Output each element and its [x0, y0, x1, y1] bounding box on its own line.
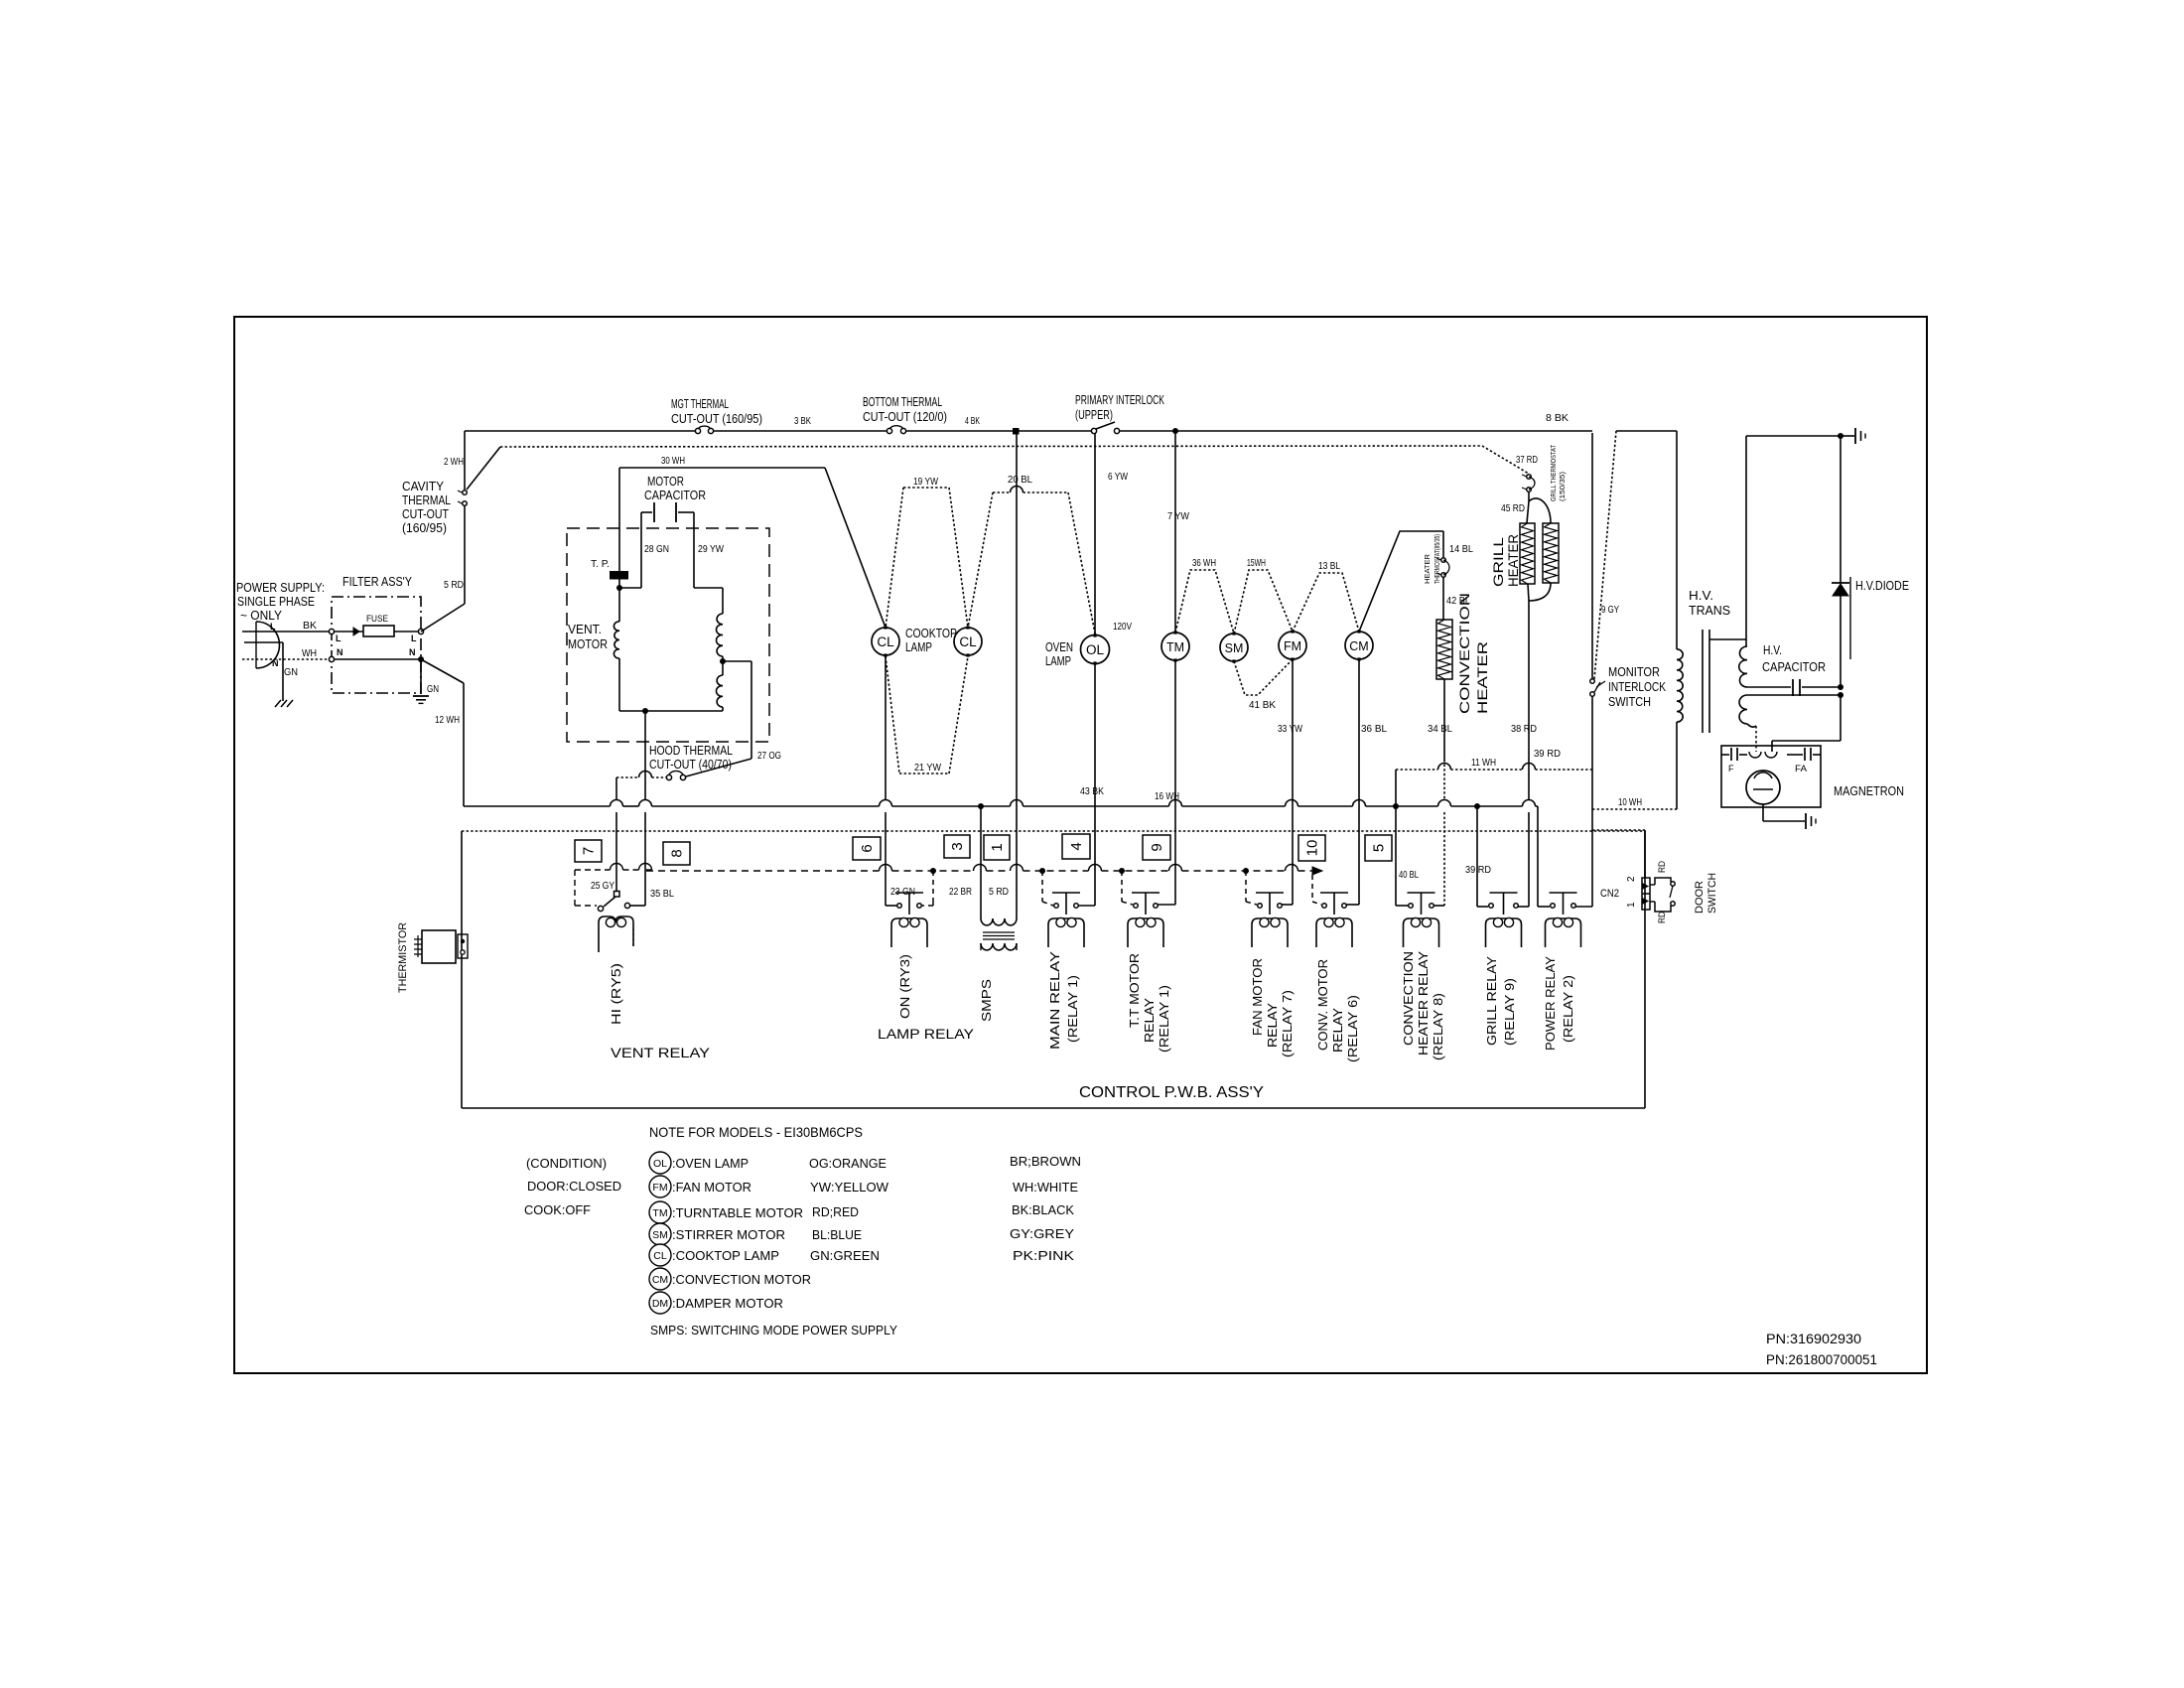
svg-text:39 RD: 39 RD [1534, 749, 1561, 760]
svg-text:4: 4 [1068, 842, 1085, 850]
stirrer motor SM [1220, 633, 1248, 661]
svg-text:POWER SUPPLY:: POWER SUPPLY: [236, 580, 325, 595]
junction dot bottom [642, 708, 648, 714]
svg-text:39 RD: 39 RD [1465, 865, 1491, 876]
wire 19 YW (lamp bridge top) [903, 487, 949, 489]
svg-text:(RELAY 1): (RELAY 1) [1065, 975, 1080, 1043]
filter assy box [332, 597, 421, 693]
cooktop lamp CL2 [954, 628, 982, 655]
svg-text:CONVECTION: CONVECTION [1401, 951, 1416, 1046]
legend DM [649, 1292, 671, 1314]
lamp relay ON(RY3) [897, 904, 902, 909]
svg-text:FM: FM [652, 1182, 667, 1194]
wire to convection heater [1442, 577, 1444, 620]
legend FM [649, 1176, 671, 1197]
junction dot dashed bus x1255 [1243, 868, 1249, 874]
svg-text:CUT-OUT (40/70): CUT-OUT (40/70) [649, 757, 732, 772]
junction dot 40BL-bus [1393, 803, 1399, 809]
vent motor main winding [614, 622, 619, 658]
svg-text:THERMISTOR: THERMISTOR [397, 922, 409, 993]
svg-text:29 YW: 29 YW [698, 544, 724, 555]
MGT thermal cut-out [695, 428, 700, 433]
svg-text:H.V.: H.V. [1689, 588, 1713, 603]
vent motor third winding [722, 661, 724, 675]
HV trans core [1702, 630, 1704, 733]
legend SM [649, 1223, 671, 1245]
svg-text::FAN MOTOR: :FAN MOTOR [672, 1180, 751, 1195]
pin box 6 [853, 837, 881, 860]
svg-text:3: 3 [949, 842, 966, 850]
wire filament to magnetron [1747, 724, 1756, 727]
wire 25 GY (hood to vent relay) [615, 777, 617, 800]
HV secondary lead [1745, 436, 1747, 646]
svg-text:5: 5 [1371, 844, 1388, 852]
svg-text:(150/35): (150/35) [1558, 471, 1567, 501]
svg-text:SM: SM [1225, 641, 1244, 655]
HV capacitor [1747, 686, 1791, 688]
svg-text:HEATER RELAY: HEATER RELAY [1416, 951, 1431, 1055]
svg-text:8 BK: 8 BK [1546, 413, 1569, 424]
svg-text:BK: BK [303, 621, 317, 632]
wire 2 WH (cutout to top bus) [464, 431, 466, 490]
wire grill relay feed [1476, 806, 1478, 907]
svg-text:30 WH: 30 WH [661, 456, 685, 467]
svg-text:CL: CL [959, 634, 977, 649]
svg-text:2: 2 [1626, 876, 1637, 882]
pin box 8 [663, 842, 690, 865]
svg-text:SINGLE PHASE: SINGLE PHASE [237, 594, 315, 609]
test point T.P. [610, 571, 628, 580]
magnetron ground [1762, 804, 1764, 821]
svg-text:CUT-OUT (160/95): CUT-OUT (160/95) [671, 411, 762, 426]
terminal L left [329, 629, 334, 633]
lamp/motor terminal nubs [884, 626, 887, 629]
svg-text:33 YW: 33 YW [1278, 724, 1302, 735]
svg-text:ON (RY3): ON (RY3) [897, 954, 912, 1019]
junction node (SMPS feed) [1013, 428, 1020, 435]
wire 20 BL (CL2-OL bridge) [993, 492, 1011, 493]
SMPS transformer [981, 918, 1017, 925]
svg-text:THERMOSTAT(85/35): THERMOSTAT(85/35) [1433, 534, 1441, 584]
wire L out of fuse [394, 631, 421, 633]
svg-text:H.V.: H.V. [1763, 642, 1782, 657]
wire 22 BR (SMPS right) [1016, 434, 1018, 918]
wire 37 RD (line2 to grill tstat) [1482, 446, 1529, 474]
magnetron filament pins [1749, 752, 1761, 758]
pin box 4 [1062, 834, 1090, 859]
svg-text:LAMP RELAY: LAMP RELAY [878, 1026, 975, 1042]
svg-text::STIRRER MOTOR: :STIRRER MOTOR [672, 1227, 785, 1242]
hood thermal wire [616, 776, 639, 778]
wire cathode to magnetron [1840, 695, 1842, 741]
svg-text:CM: CM [1349, 639, 1368, 653]
HV diode D1 [1840, 436, 1842, 583]
svg-text:(RELAY 7): (RELAY 7) [1280, 990, 1295, 1057]
wire 41 BK (SM-FM bottom) [1234, 659, 1293, 695]
junction dot capacitor [1838, 684, 1843, 690]
terminal N right [418, 656, 424, 662]
cooktop lamp CL1 [872, 628, 899, 655]
svg-text:5 RD: 5 RD [989, 887, 1009, 898]
svg-text:OL: OL [653, 1158, 667, 1170]
wire 40 BL (to conv heater relay) [1395, 770, 1397, 906]
wire 30 WH [619, 467, 825, 469]
svg-text:7: 7 [581, 847, 598, 855]
svg-text:36 BL: 36 BL [1361, 724, 1387, 735]
grill heater element 1 [1520, 523, 1535, 584]
svg-text:34 BL: 34 BL [1428, 724, 1452, 735]
svg-text:~ ONLY: ~ ONLY [240, 608, 282, 623]
HV diode label line [1849, 577, 1851, 659]
vent motor bottom wire [619, 710, 723, 712]
svg-text:MOTOR: MOTOR [568, 636, 608, 651]
svg-text:(CONDITION): (CONDITION) [526, 1156, 607, 1171]
svg-text:(RELAY 2): (RELAY 2) [1561, 975, 1575, 1043]
wire 5 RD (L to cavity cutout) [421, 604, 465, 632]
svg-text:FAN MOTOR: FAN MOTOR [1250, 958, 1265, 1036]
junction dot (motor node) [618, 579, 620, 622]
svg-text:TM: TM [652, 1207, 667, 1219]
svg-text:HEATER: HEATER [1474, 641, 1490, 714]
svg-text:FM: FM [1284, 639, 1301, 653]
grill relay [1489, 904, 1494, 909]
vent relay dashed box [575, 869, 611, 871]
svg-text:(RELAY 1): (RELAY 1) [1157, 985, 1171, 1053]
svg-text:10: 10 [1304, 840, 1321, 857]
svg-text::CONVECTION MOTOR: :CONVECTION MOTOR [672, 1272, 811, 1287]
svg-text:CAPACITOR: CAPACITOR [1762, 659, 1826, 674]
connector CN2 [1642, 878, 1650, 910]
svg-text:SWITCH: SWITCH [1608, 694, 1651, 709]
junction dot dashed bus x1130 [1119, 868, 1125, 874]
svg-text:9 GY: 9 GY [1601, 605, 1619, 616]
wire 35 BL (motor common down) [644, 711, 646, 800]
wire 19 WH (to CN2) [1592, 829, 1645, 831]
bottom thermal cut-out [887, 428, 891, 433]
relay control dashed bus [646, 870, 880, 872]
power relay [1551, 904, 1556, 909]
svg-text:SWITCH: SWITCH [1706, 873, 1718, 914]
wire N through filter [332, 658, 421, 660]
svg-text:28 GN: 28 GN [644, 544, 669, 555]
svg-text:FA: FA [1795, 764, 1807, 774]
thermistor [422, 930, 456, 963]
svg-text:21 YW: 21 YW [914, 763, 941, 774]
TT motor relay [1134, 904, 1139, 909]
convection heater element [1436, 620, 1452, 679]
hood thermal cut-out switch [666, 774, 671, 779]
svg-text:CUT-OUT: CUT-OUT [402, 506, 449, 521]
wire 13 BL (FM-CM) [1293, 573, 1359, 632]
svg-text:WH: WH [302, 648, 317, 659]
grill thermostat switch [1527, 475, 1532, 480]
wire 38 RD (grill down) [1528, 584, 1529, 601]
svg-text:OG:ORANGE: OG:ORANGE [809, 1156, 887, 1171]
door switch [1650, 884, 1655, 886]
vent motor main line [618, 468, 620, 571]
svg-text:L: L [270, 622, 276, 632]
svg-text:T. P.: T. P. [591, 559, 610, 570]
svg-text:HOOD THERMAL: HOOD THERMAL [649, 743, 733, 758]
svg-text:38 RD: 38 RD [1511, 724, 1537, 735]
grill heater element 2 [1543, 523, 1559, 583]
svg-text:MAIN RELAY: MAIN RELAY [1047, 951, 1062, 1050]
svg-text:40 BL: 40 BL [1399, 870, 1419, 881]
svg-text:SMPS: SWITCHING MODE POWER SUP: SMPS: SWITCHING MODE POWER SUPPLY [650, 1323, 897, 1337]
svg-text:T.T MOTOR: T.T MOTOR [1127, 953, 1142, 1028]
svg-text:13 BL: 13 BL [1318, 561, 1340, 572]
wire split to grill elements [1528, 492, 1530, 501]
legend CM [649, 1268, 671, 1290]
svg-text:BOTTOM THERMAL: BOTTOM THERMAL [863, 394, 942, 409]
junction dot grill relay feed [1474, 803, 1480, 809]
filter ground [420, 662, 422, 694]
dashed drop to lamp relay [932, 871, 934, 902]
svg-text:9: 9 [1149, 843, 1165, 851]
svg-text:6: 6 [859, 844, 876, 852]
svg-text:YW:YELLOW: YW:YELLOW [810, 1180, 889, 1195]
svg-text:H.V.DIODE: H.V.DIODE [1855, 578, 1909, 593]
svg-text:41 BK: 41 BK [1249, 700, 1276, 711]
svg-text:GRILL: GRILL [1490, 537, 1506, 587]
svg-text:CONV. MOTOR: CONV. MOTOR [1315, 959, 1330, 1051]
motor run capacitor [619, 587, 641, 589]
monitor interlock switch [1590, 679, 1595, 684]
convection heater relay [1409, 904, 1414, 909]
dashed drop to main relay [1041, 871, 1043, 902]
wire 39 RD (main right vertical) [1591, 433, 1593, 679]
svg-text:COOK:OFF: COOK:OFF [524, 1202, 591, 1217]
main relay RELAY1 [1054, 904, 1059, 909]
svg-text:23 GN: 23 GN [890, 887, 915, 898]
magnetron tube [1746, 771, 1780, 804]
dashed drop to conv motor relay [1311, 875, 1313, 902]
svg-text:BK:BLACK: BK:BLACK [1012, 1202, 1074, 1217]
svg-text::TURNTABLE MOTOR: :TURNTABLE MOTOR [672, 1205, 803, 1220]
wire to hood cutout [723, 660, 751, 662]
wire 36 BL (CM down) [1358, 659, 1360, 905]
svg-text:HEATER: HEATER [1505, 534, 1521, 587]
pin box 10 [1298, 835, 1325, 861]
vent relay HI(RY5) contacts [614, 892, 620, 898]
fan motor relay [1258, 904, 1263, 909]
convection motor CM [1345, 632, 1373, 659]
svg-text:INTERLOCK: INTERLOCK [1608, 679, 1666, 694]
svg-text:HI (RY5): HI (RY5) [609, 963, 623, 1025]
svg-text:37 RD: 37 RD [1516, 455, 1538, 466]
svg-text:GN:GREEN: GN:GREEN [810, 1248, 880, 1263]
cavity thermal cut-out switch [463, 491, 468, 495]
conv motor relay [1322, 904, 1327, 909]
svg-text:SM: SM [652, 1229, 668, 1241]
wire to monitor interlock [1594, 431, 1616, 679]
wire OL down [1094, 663, 1096, 906]
svg-text:(RELAY 6): (RELAY 6) [1345, 995, 1360, 1062]
pin box 7 [575, 840, 602, 862]
wire 11 WH [1396, 769, 1438, 771]
svg-text:27 OG: 27 OG [757, 751, 781, 762]
svg-text:(RELAY 9): (RELAY 9) [1502, 978, 1517, 1046]
junction dot aux [720, 658, 726, 664]
wire power relay left [1537, 806, 1539, 907]
svg-text:MOTOR: MOTOR [647, 474, 684, 489]
svg-text:MAGNETRON: MAGNETRON [1834, 783, 1904, 798]
ground (top right) [1841, 435, 1854, 437]
svg-text:4 BK: 4 BK [965, 416, 980, 427]
svg-text:25 GY: 25 GY [591, 881, 614, 892]
svg-text:RELAY: RELAY [1142, 998, 1157, 1043]
svg-text:OVEN: OVEN [1045, 639, 1073, 654]
svg-text:GN: GN [284, 667, 298, 678]
svg-text:3 BK: 3 BK [794, 416, 811, 427]
svg-text:WH:WHITE: WH:WHITE [1013, 1180, 1078, 1195]
wire to line 2 [467, 447, 500, 490]
svg-text:BL:BLUE: BL:BLUE [812, 1227, 862, 1242]
wire L into filter [332, 631, 363, 633]
svg-text:VENT RELAY: VENT RELAY [611, 1045, 711, 1060]
svg-text:L: L [411, 633, 417, 643]
junction dot SMPS bus [978, 803, 984, 809]
svg-text:43 BK: 43 BK [1080, 786, 1104, 797]
wire 34 BL (heater down) [1443, 679, 1445, 760]
svg-text:LAMP: LAMP [1045, 653, 1071, 668]
pin box 9 [1143, 835, 1170, 860]
junction dot dashed bus x940 [930, 868, 936, 874]
legend TM [649, 1201, 671, 1223]
svg-text:DOOR:CLOSED: DOOR:CLOSED [527, 1179, 621, 1194]
wire TM down [1174, 660, 1176, 905]
fuse F1 [363, 626, 394, 636]
wire SMPS left [980, 806, 982, 918]
magnetron FA capacitor [1813, 754, 1821, 756]
svg-text:PN:261800700051: PN:261800700051 [1766, 1352, 1877, 1367]
svg-text:CL: CL [877, 634, 894, 649]
svg-text:1: 1 [1626, 902, 1637, 908]
svg-text:DM: DM [652, 1298, 668, 1310]
svg-text:CONTROL P.W.B. ASS'Y: CONTROL P.W.B. ASS'Y [1079, 1084, 1264, 1101]
svg-text:CN2: CN2 [1600, 888, 1619, 900]
vent motor dashed box [567, 528, 769, 742]
svg-text:GY:GREY: GY:GREY [1010, 1226, 1074, 1241]
svg-text:15WH: 15WH [1247, 558, 1266, 569]
svg-text:CUT-OUT (120/0): CUT-OUT (120/0) [863, 409, 947, 424]
svg-text:14 BL: 14 BL [1449, 544, 1473, 555]
pin box 3 [944, 835, 970, 858]
pin box 5 [1365, 835, 1392, 861]
wire 6 YW (interlock to OL) [1094, 433, 1096, 634]
pin box 1 [984, 835, 1010, 860]
svg-text:GN: GN [427, 684, 439, 695]
svg-text:FILTER ASS'Y: FILTER ASS'Y [342, 574, 412, 589]
svg-text:MGT THERMAL: MGT THERMAL [671, 396, 729, 411]
legend CL [649, 1244, 671, 1266]
svg-text:45 RD: 45 RD [1501, 503, 1525, 514]
svg-text:L: L [336, 633, 341, 643]
svg-text:TRANS: TRANS [1689, 603, 1730, 618]
svg-text:CL: CL [653, 1250, 667, 1262]
svg-text:RD: RD [1657, 912, 1667, 923]
svg-text:CM: CM [652, 1274, 668, 1286]
wire 10 WH (to HV trans) [1592, 808, 1677, 810]
wire 7 YW (TM feed) [1174, 433, 1176, 633]
svg-text:2 WH: 2 WH [444, 457, 464, 468]
magnetron F capacitor [1721, 754, 1729, 756]
svg-text:20 BL: 20 BL [1008, 475, 1032, 486]
svg-text:RD: RD [1657, 861, 1667, 873]
svg-text:7 YW: 7 YW [1167, 511, 1189, 522]
svg-text:6 YW: 6 YW [1108, 472, 1128, 483]
svg-text:N: N [272, 658, 279, 668]
svg-text::COOKTOP LAMP: :COOKTOP LAMP [672, 1248, 779, 1263]
vent motor aux wire [722, 588, 724, 614]
svg-text:CONVECTION: CONVECTION [1456, 593, 1472, 714]
svg-text:22 BR: 22 BR [949, 887, 972, 898]
wire 43 BK (CL1 down) [885, 656, 887, 800]
svg-text:OL: OL [1086, 642, 1105, 657]
svg-text:11 WH: 11 WH [1471, 758, 1496, 769]
svg-text:8: 8 [669, 849, 686, 857]
svg-text:RD;RED: RD;RED [812, 1204, 859, 1219]
heater thermostat switch [1441, 558, 1446, 563]
svg-text:CAVITY: CAVITY [402, 479, 444, 493]
svg-text:N: N [409, 647, 416, 657]
svg-text:FUSE: FUSE [366, 614, 388, 625]
svg-text:POWER RELAY: POWER RELAY [1543, 956, 1558, 1051]
svg-text:36 WH: 36 WH [1192, 558, 1216, 569]
svg-text:RELAY: RELAY [1330, 1008, 1345, 1053]
oven lamp OL [1081, 635, 1110, 664]
power supply plug [256, 622, 280, 668]
terminal N left [329, 656, 334, 661]
wire 21 YW (lamp bridge bottom) [886, 656, 899, 774]
svg-text:1: 1 [989, 843, 1006, 851]
dashed drop to TT relay [1121, 871, 1123, 902]
dashed drop to fan relay [1245, 871, 1247, 902]
magnetron box [1721, 746, 1821, 807]
svg-text:5 RD: 5 RD [444, 580, 464, 591]
wire 14 BL (CM to heater) [1359, 531, 1443, 632]
svg-text:COOKTOP: COOKTOP [905, 626, 957, 640]
svg-text:RELAY: RELAY [1265, 1003, 1280, 1048]
fan motor FM [1279, 632, 1306, 659]
svg-text:PK:PINK: PK:PINK [1013, 1248, 1074, 1263]
svg-text:19 YW: 19 YW [913, 477, 938, 488]
HV filament winding [1739, 695, 1747, 724]
junction dot TM feed [1172, 428, 1178, 434]
svg-text:PN:316902930: PN:316902930 [1766, 1332, 1861, 1346]
svg-text:GRILL THERMOSTAT: GRILL THERMOSTAT [1549, 445, 1558, 501]
svg-text:MONITOR: MONITOR [1608, 664, 1660, 679]
legend OL [649, 1152, 671, 1174]
control PWB box [462, 830, 1645, 832]
wire 33 YW (FM down) [1292, 659, 1294, 905]
svg-text:(RELAY 8): (RELAY 8) [1431, 993, 1445, 1060]
HV secondary winding [1739, 646, 1747, 687]
svg-text:SMPS: SMPS [979, 979, 994, 1022]
svg-text:DOOR: DOOR [1694, 881, 1706, 914]
svg-text:VENT.: VENT. [568, 622, 602, 636]
turntable motor TM [1161, 633, 1189, 660]
primary interlock switch [1091, 428, 1096, 433]
main lower bus wire [464, 805, 611, 807]
vent relay coil [599, 916, 633, 952]
bus wire (line 2) [500, 446, 1482, 447]
svg-text::OVEN LAMP: :OVEN LAMP [672, 1156, 749, 1171]
svg-text:LAMP: LAMP [905, 639, 932, 654]
svg-text:PRIMARY INTERLOCK: PRIMARY INTERLOCK [1075, 392, 1164, 407]
wire 36 WH (TM-SM) [1175, 570, 1234, 633]
svg-text:TM: TM [1166, 640, 1184, 654]
